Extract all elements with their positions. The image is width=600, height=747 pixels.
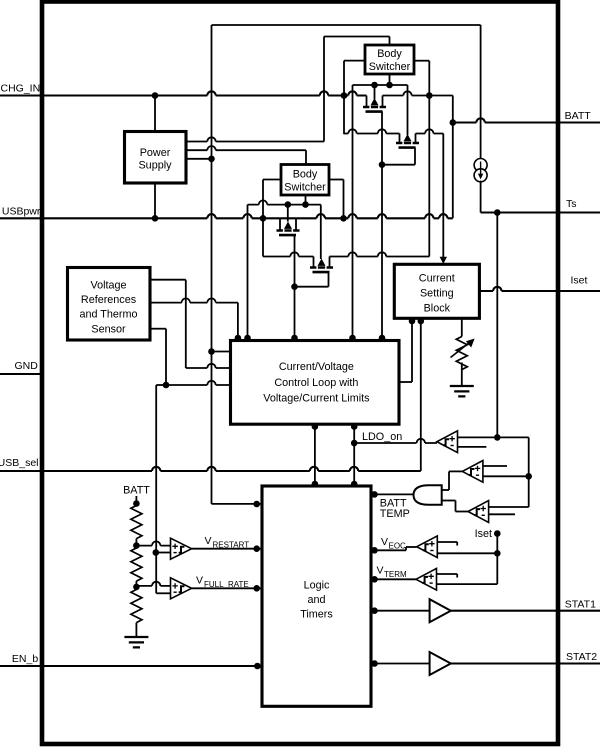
block Body Switcher 2 (281, 165, 329, 196)
wire resistor to ground (461, 363, 463, 387)
buffer U7 (STAT1) (430, 599, 451, 622)
label V_FULL_RATE (196, 575, 249, 590)
svg-text:V: V (381, 536, 388, 548)
wire BATT node vertical (452, 96, 454, 219)
svg-text:Power: Power (140, 147, 171, 159)
svg-text:BATT: BATT (565, 110, 592, 122)
svg-text:EOC: EOC (389, 542, 407, 551)
wire Power Supply to USBpwr (154, 183, 156, 218)
wire Q2 drain down to Current Setting Block (442, 134, 444, 262)
node Q1 right / BS1-right junction (426, 92, 433, 99)
pin STAT2 label (566, 651, 597, 663)
pin Iset label (571, 275, 588, 287)
label Iset net (475, 528, 492, 540)
wire Q2 gate lead (382, 148, 415, 165)
wire U6 plus stub (437, 574, 458, 578)
wire body2-left vertical to control loop (247, 205, 249, 339)
wire reference to U10 minus (156, 592, 170, 594)
label V_TERM (377, 565, 408, 580)
ground GND1 (124, 637, 148, 647)
block Logic and Timers (262, 486, 371, 706)
node Power Supply output 3 junction (208, 156, 215, 163)
transistor Q3 (277, 218, 300, 235)
transistor Q4 (310, 257, 333, 273)
wire U5 output to logic (376, 547, 417, 550)
svg-text:TEMP: TEMP (380, 508, 410, 520)
node CSB bottom pins (409, 318, 424, 325)
wire LDO_on line (354, 439, 437, 443)
wire logic to STAT1 buffer (376, 610, 430, 612)
pin CHG_IN label (1, 83, 41, 95)
wire U3 plus from bias chain (489, 506, 529, 508)
gate U4 (AND, battery temp) (414, 485, 442, 505)
wire tap2 to U10 plus (136, 582, 170, 586)
wire USB_sel line (0, 467, 421, 471)
wire U5 plus stub (437, 542, 457, 546)
wire Body Switcher 1 top input (324, 37, 390, 142)
op-amp U3 (temp comparator low) (468, 501, 489, 523)
node bias chain junction (525, 473, 532, 480)
wire Q3-Q4 gate link (295, 272, 329, 287)
node control loop bottom pins (312, 423, 358, 430)
svg-text:Voltage/Current Limits: Voltage/Current Limits (263, 393, 370, 405)
node Q3-Q4 gate junction (291, 283, 298, 290)
node VEOC minus junction (494, 550, 501, 557)
node Ts junction (494, 209, 501, 216)
block Body Switcher 1 (365, 45, 414, 74)
node control loop top pins (235, 335, 386, 342)
svg-text:LDO_on: LDO_on (362, 431, 402, 443)
wire VRef C to comparator references (156, 385, 166, 593)
wire CSB to Iset resistor (461, 318, 463, 336)
svg-text:Ts: Ts (566, 198, 577, 210)
wire U3 minus stub (489, 513, 515, 515)
wire VRef output B (150, 298, 238, 339)
wire rail to control loop left pin (212, 351, 231, 353)
current source I1 (474, 159, 487, 182)
svg-text:Current: Current (419, 273, 455, 285)
wire VRef output A (150, 280, 231, 368)
wire U2 plus stub (483, 465, 507, 467)
wire current source to Ts (480, 181, 482, 213)
svg-text:Iset: Iset (475, 528, 492, 540)
svg-text:V: V (377, 565, 384, 577)
svg-text:GND: GND (14, 360, 38, 372)
resistor R1 (131, 506, 142, 539)
wire control loop to logic (right, LDO_on) (353, 427, 355, 485)
svg-text:and: and (307, 594, 325, 606)
block Power Supply (125, 132, 187, 184)
svg-text:STAT1: STAT1 (565, 598, 596, 610)
svg-text:Logic: Logic (304, 580, 330, 592)
node USBpwr junctions (152, 215, 347, 222)
svg-text:STAT2: STAT2 (566, 651, 597, 663)
node VRef C junction (163, 382, 170, 389)
node logic right pins (371, 491, 378, 667)
ground GND2 (450, 386, 474, 396)
op-amp U10 (VFULL_RATE comparator) (171, 578, 192, 599)
wire EN_b line (0, 665, 262, 667)
pin BATT label (565, 110, 592, 122)
wire Power Supply output 1 (to BS1) (186, 137, 324, 141)
op-amp U5 (VEOC comparator) (417, 536, 438, 558)
pin STAT1 label (565, 598, 596, 610)
wire Q2 terminals wire (right) (416, 129, 444, 133)
node logic left pins (253, 501, 260, 670)
node CHG_IN junctions (152, 92, 348, 99)
label V_EOC (381, 536, 406, 551)
node Q1-Q2 gate junction (379, 161, 386, 168)
svg-text:Setting: Setting (420, 288, 454, 300)
wire VRef C to control loop (166, 381, 231, 385)
wire Q4 left terminal (263, 252, 314, 256)
svg-text:BATT: BATT (123, 485, 150, 497)
wire Iset net vertical (496, 534, 498, 585)
wire Q1 body lead (374, 85, 376, 99)
wire control loop right stub to CSB (399, 322, 412, 383)
label V_RESTART (205, 535, 250, 550)
wire USB_sel to CSB (420, 322, 422, 472)
wire Q3 gate lead (294, 235, 296, 339)
svg-text:Voltage: Voltage (90, 279, 126, 291)
svg-text:Body: Body (377, 48, 402, 60)
node divider tap 2 (133, 584, 140, 591)
resistor R2 (131, 548, 142, 581)
wire R2-R3 link (135, 581, 137, 589)
node reference rail junction (153, 549, 160, 556)
svg-text:EN_b: EN_b (12, 653, 38, 665)
wire logic to STAT2 buffer (376, 663, 430, 665)
wire U2 output to AND gate (442, 471, 463, 490)
svg-text:TERM: TERM (384, 570, 407, 579)
wire body-left vertical to control loop (352, 85, 354, 339)
node divider tap 1 (133, 542, 140, 549)
wire comparator bias chain (528, 437, 530, 507)
wire R1-R2 link (135, 539, 137, 548)
wire reference to U9 minus (156, 552, 171, 554)
wire VRef output C (150, 329, 166, 385)
transistor Q1 (363, 96, 386, 112)
wire U5 minus from Iset net (437, 552, 497, 554)
wire Power Supply output 2 (to BS2 top) (186, 146, 306, 165)
svg-text:References: References (81, 294, 137, 306)
node U1 plus junction (494, 434, 501, 441)
wire rail to logic left pin (212, 503, 263, 505)
wire U1 plus input from Ts net (457, 436, 528, 438)
wire Q4 body lead (320, 205, 322, 259)
node LDO_on junction (351, 440, 358, 447)
wire AND output to logic BATT TEMP pin (376, 493, 414, 495)
wire U6 output to logic (376, 578, 416, 580)
svg-text:Block: Block (424, 303, 451, 315)
block Current Setting Block (394, 264, 479, 318)
op-amp U2 (temp comparator high) (462, 461, 483, 483)
pin EN_b label (12, 653, 38, 665)
wire Iset line (479, 287, 600, 291)
wire U6 minus from Iset net (437, 583, 498, 585)
node rail to control loop junction (208, 348, 215, 355)
svg-text:Timers: Timers (300, 609, 333, 621)
svg-text:RESTART: RESTART (213, 541, 250, 550)
wire BATT line (453, 118, 600, 122)
wire STAT2 output line (451, 662, 600, 664)
svg-text:and Thermo: and Thermo (79, 309, 137, 321)
buffer U8 (STAT2) (430, 652, 451, 675)
label LDO_on (362, 431, 402, 443)
label BATT TEMP (380, 498, 410, 521)
svg-text:USB_sel: USB_sel (0, 457, 39, 469)
svg-text:Control Loop with: Control Loop with (274, 377, 358, 389)
wire BS2 body node (248, 195, 321, 205)
wire control loop to logic (left) (314, 427, 316, 485)
wire U1 minus reference stub (457, 446, 486, 448)
wire BATT net stub (135, 496, 137, 506)
svg-text:V: V (196, 575, 203, 587)
label BATT net (123, 485, 150, 497)
wire USBpwr line (0, 214, 453, 218)
resistor R3 (131, 590, 142, 623)
wire Q1 gate lead (381, 112, 383, 340)
wire CHG_IN line (0, 91, 367, 95)
node BATT junction (450, 119, 457, 126)
op-amp U9 (VRESTART comparator) (171, 538, 192, 559)
wire BS2 right input (329, 180, 344, 219)
wire BS1 left input from CHG_IN (344, 61, 365, 135)
svg-text:Supply: Supply (138, 160, 172, 172)
node Iset net dot (494, 530, 501, 537)
node BATT net dot (133, 500, 140, 507)
wire U9 output to logic (192, 548, 262, 550)
wire BS2 left input from USBpwr (263, 180, 281, 257)
resistor R4 (Iset programming, variable) (451, 337, 475, 370)
block Voltage References and Thermo Sensor (68, 268, 151, 341)
wire Q1 source terminal from CHG_IN (A-right wire) (383, 91, 453, 95)
svg-text:FULL_RATE: FULL_RATE (204, 580, 249, 589)
wire tap1 to U9 plus (136, 541, 170, 545)
wire CHG_IN to Power Supply (154, 96, 156, 132)
wire Ts to comparator bias (496, 213, 498, 438)
pin USBpwr label (2, 206, 41, 218)
transistor Q2 (396, 134, 419, 148)
svg-text:Switcher: Switcher (284, 182, 326, 194)
wire top rail to current source (212, 25, 481, 504)
wire Q4 right terminal to common node (330, 252, 430, 256)
wire Q2 body lead (407, 85, 409, 135)
svg-text:USBpwr: USBpwr (2, 206, 41, 218)
block Current/Voltage Control Loop (231, 341, 400, 425)
svg-text:Switcher: Switcher (369, 61, 411, 73)
wire BS1 body node (353, 74, 408, 85)
svg-text:Sensor: Sensor (91, 323, 126, 335)
wire U10 output to logic (192, 587, 262, 589)
op-amp U6 (VTERM comparator) (416, 568, 437, 590)
pin Ts label (566, 198, 577, 210)
wire R3 to ground (135, 623, 137, 637)
wire BS1 right input (414, 61, 429, 257)
svg-text:CHG_IN: CHG_IN (1, 83, 41, 95)
wire U2 minus from bias chain (483, 475, 529, 477)
svg-text:Iset: Iset (571, 275, 588, 287)
node body wire junctions (371, 82, 393, 89)
wire STAT1 output line (451, 610, 600, 612)
wire GND stub line (0, 373, 42, 375)
wire Q3 body lead (287, 205, 289, 222)
wire U3 output to AND gate (442, 501, 468, 512)
node CSB top input arrowhead (440, 257, 447, 264)
pin GND label (14, 360, 38, 372)
svg-text:V: V (205, 535, 212, 547)
node BS2 body junctions (285, 201, 309, 208)
op-amp U1 (LDO comparator) (437, 431, 458, 453)
svg-text:Body: Body (293, 169, 318, 181)
wire Q2 terminals wire (left) (344, 129, 400, 133)
svg-text:Current/Voltage: Current/Voltage (279, 361, 354, 373)
wire Ts line (481, 211, 600, 213)
node logic top pins (312, 481, 358, 488)
pin USB_sel label (0, 457, 39, 469)
wire Power Supply output 3 (to rail) (186, 158, 212, 160)
